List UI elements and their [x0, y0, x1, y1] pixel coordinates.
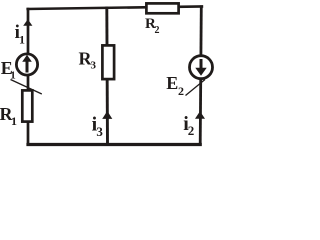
svg-text:2: 2: [155, 25, 160, 36]
svg-text:3: 3: [91, 59, 97, 71]
svg-text:1: 1: [19, 33, 25, 47]
svg-text:2: 2: [188, 123, 195, 138]
svg-text:2: 2: [178, 84, 184, 98]
svg-text:1: 1: [10, 70, 16, 82]
svg-text:E: E: [166, 73, 178, 93]
svg-text:1: 1: [11, 114, 17, 128]
svg-text:3: 3: [96, 124, 103, 139]
